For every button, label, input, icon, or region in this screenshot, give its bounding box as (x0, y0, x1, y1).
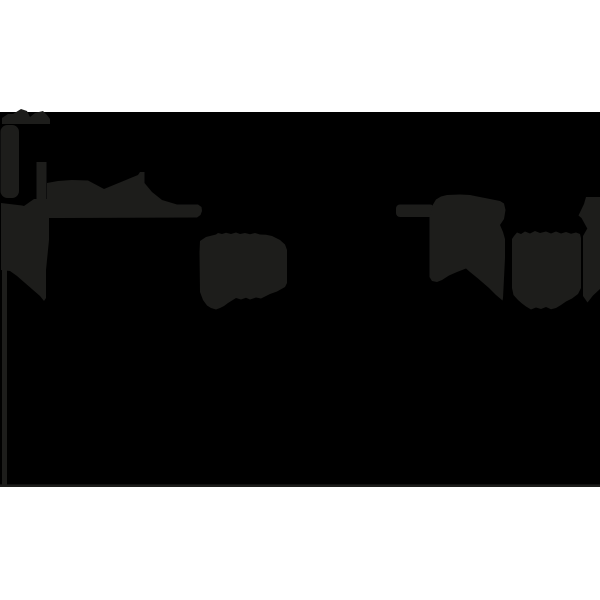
transistor Q1 body (430, 195, 506, 301)
capacitor C1 top zigzag mark (2, 109, 50, 124)
wire stub node A (37, 162, 47, 202)
wire left rail vertical (2, 269, 7, 487)
component U1 box with value label text (200, 233, 288, 310)
wire bottom border line (0, 484, 600, 487)
inductor L1 coil pill (1, 125, 20, 198)
wire right edge crossing (579, 197, 600, 303)
schematic dark field (figure background) (0, 112, 600, 487)
wire bus right (396, 205, 434, 218)
wire bus left (band and mass) (1, 172, 202, 301)
component U2 box with value label text (512, 231, 581, 310)
